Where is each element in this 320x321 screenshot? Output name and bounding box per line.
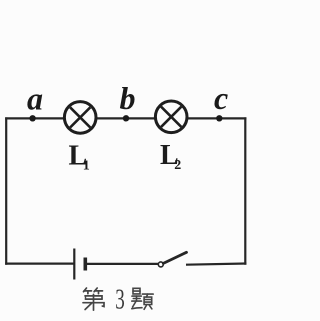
caption character 第: [83, 288, 104, 310]
battery long plate (positive): [73, 249, 75, 280]
svg-text:b: b: [120, 80, 136, 116]
lamp L1: [64, 102, 96, 134]
node a: [29, 115, 35, 121]
switch pivot: [158, 262, 163, 267]
label a: [27, 81, 43, 117]
svg-text:c: c: [214, 80, 228, 116]
wire top-middle segment: [96, 117, 156, 119]
label b: [120, 80, 136, 116]
svg-text:2: 2: [174, 158, 181, 173]
lamp L2: [155, 101, 187, 133]
wire bottom-left segment: [5, 263, 74, 265]
wire right vertical: [244, 117, 246, 264]
caption digit 3: [115, 285, 125, 315]
wire top-left segment: [5, 117, 64, 119]
node b: [123, 115, 129, 121]
svg-text:1: 1: [83, 159, 90, 174]
wire bottom-right segment: [186, 264, 246, 265]
svg-text:a: a: [27, 81, 43, 117]
svg-text:3: 3: [115, 285, 125, 315]
label L1: [69, 141, 90, 174]
label c: [214, 80, 228, 116]
node c: [216, 115, 222, 121]
label L2: [160, 140, 181, 173]
wire bottom-middle segment: [85, 263, 158, 265]
caption character 题: [132, 288, 153, 309]
switch lever: [163, 252, 186, 263]
wire top-right segment: [187, 117, 246, 119]
wire left vertical: [5, 117, 7, 264]
battery short plate (negative): [84, 258, 88, 271]
